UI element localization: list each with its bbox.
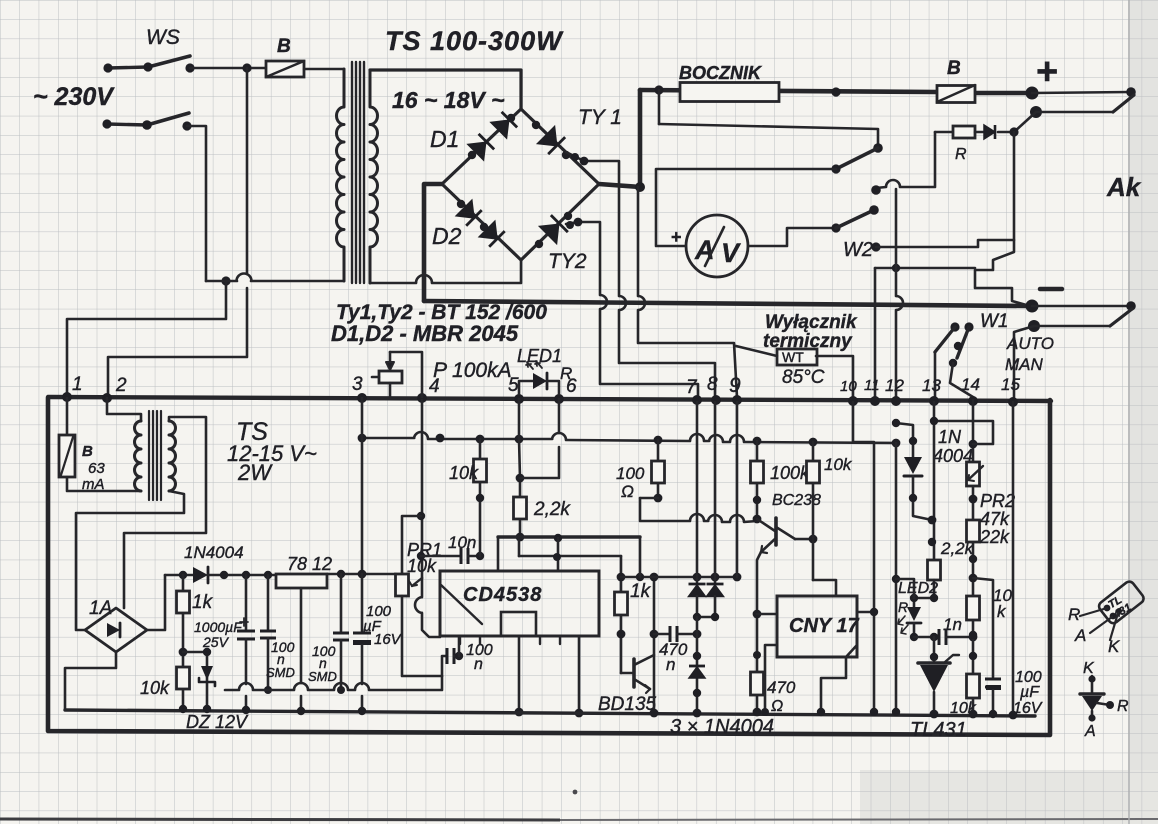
LED1 with R	[519, 381, 533, 394]
pin 15	[1008, 397, 1018, 407]
svg-text:2W: 2W	[237, 460, 273, 485]
transformer TS100 secondary winding	[370, 70, 378, 283]
wire N to transformer primary bottom (hop over L wire)	[206, 280, 237, 283]
pin 10	[848, 396, 858, 406]
shunt BOCZNIK	[680, 83, 779, 102]
svg-text:CD4538: CD4538	[463, 584, 542, 606]
svg-text:+: +	[1036, 51, 1058, 93]
potentiometer P 100kA	[379, 371, 402, 383]
transformer TS100 primary winding	[337, 69, 345, 281]
capacitor 100n SMD (2)	[340, 574, 343, 631]
TY1 gate wire to pin8 riser	[566, 152, 619, 296]
svg-text:1N: 1N	[938, 427, 962, 447]
transistor BD135	[621, 672, 632, 675]
7812 ground pin	[300, 588, 303, 683]
svg-text:R: R	[1068, 605, 1080, 624]
svg-text:15: 15	[1001, 375, 1020, 394]
svg-text:R: R	[1117, 698, 1129, 715]
pin12 column lower	[895, 443, 898, 712]
scan line bottom edge	[0, 819, 560, 820]
svg-text:BOCZNIK: BOCZNIK	[679, 63, 763, 83]
svg-text:16 ~ 18V ~: 16 ~ 18V ~	[392, 87, 505, 113]
svg-text:10k: 10k	[449, 463, 479, 483]
zener DZ 12V	[183, 652, 207, 709]
transformer TS100 core	[351, 62, 353, 283]
svg-text:CNY 17: CNY 17	[789, 615, 860, 637]
svg-text:B: B	[82, 443, 93, 460]
capacitor 1000uF 25V	[245, 575, 248, 629]
pot wiper link to pin13	[934, 421, 993, 444]
svg-text:DZ 12V: DZ 12V	[186, 712, 249, 732]
optocoupler CNY17	[777, 596, 857, 657]
svg-text:PR2: PR2	[980, 491, 1015, 511]
wire to CNY17 top pin	[813, 580, 836, 596]
svg-text:16V: 16V	[1013, 700, 1043, 717]
control board outline	[48, 398, 1050, 735]
svg-text:25V: 25V	[202, 634, 230, 650]
resistor 1k (timer)	[620, 556, 623, 673]
TO-92 package TL431	[1097, 580, 1147, 628]
svg-text:Ak: Ak	[1106, 172, 1142, 202]
pin5 column with 2,2k	[519, 399, 520, 537]
wire y556 to 1k	[519, 555, 621, 558]
svg-text:TY2: TY2	[548, 250, 587, 273]
plus terminal	[1026, 87, 1039, 100]
svg-text:B: B	[277, 36, 291, 57]
svg-text:BD135: BD135	[598, 694, 657, 715]
svg-text:V: V	[721, 238, 741, 268]
resistor 100k	[756, 441, 759, 519]
pin7 column + diode	[696, 402, 699, 582]
TL431	[933, 637, 936, 663]
fuse B (mains)	[266, 61, 304, 77]
pin12 riser (hops minus rail)	[895, 189, 898, 296]
svg-text:85°C: 85°C	[782, 367, 825, 388]
capacitor 470n	[654, 633, 670, 636]
pin 1	[62, 392, 72, 402]
wire W2 pole1 to meter plus	[656, 169, 836, 246]
resistor 10k (line A to 10n)	[479, 439, 482, 556]
svg-text:63: 63	[88, 460, 105, 477]
svg-text:10k: 10k	[824, 455, 853, 474]
svg-text:D1: D1	[430, 126, 459, 152]
resistor 1k	[182, 575, 185, 709]
ground rail	[65, 710, 1035, 716]
svg-text:1n: 1n	[943, 615, 962, 634]
svg-text:100: 100	[616, 464, 645, 483]
svg-text:3: 3	[352, 374, 363, 395]
svg-text:1k: 1k	[192, 592, 214, 613]
wire L down to pin2	[242, 63, 251, 72]
diode 1N4004	[165, 574, 193, 577]
wire N branch to pin1	[67, 281, 226, 396]
wire secondary top to bridge	[370, 70, 521, 109]
svg-text:16V: 16V	[374, 631, 403, 648]
svg-text:22k: 22k	[979, 527, 1010, 547]
svg-text:78 12: 78 12	[287, 554, 332, 574]
thyristor TY1	[538, 127, 566, 155]
pin 7	[692, 395, 702, 405]
bridge minus output to rail	[424, 184, 442, 301]
svg-text:A: A	[1084, 723, 1096, 740]
row 577	[621, 576, 737, 579]
trickle branch: R and diode	[1014, 112, 1036, 132]
LED2 top jog to pin12 column	[896, 579, 914, 598]
pin 6	[554, 394, 564, 404]
wire fuse to transformer	[304, 68, 344, 71]
transformer TS (board)	[107, 398, 141, 421]
resistor 100 ohm	[657, 440, 660, 498]
svg-text:11: 11	[864, 377, 880, 394]
pin7 column lower + third diode	[696, 617, 699, 713]
svg-text:W1: W1	[980, 311, 1009, 332]
plus rail top	[640, 90, 937, 92]
bridge diamond	[442, 109, 599, 260]
svg-text:P 100kA: P 100kA	[433, 359, 512, 382]
wire TS secondary bottom to 1A bridge	[76, 491, 184, 630]
diode 1N4004 (gate)	[896, 423, 913, 457]
svg-text:Wyłącznik: Wyłącznik	[765, 312, 858, 333]
paper fold line right	[1128, 0, 1130, 824]
minus distribution rail	[424, 301, 1030, 306]
svg-text:1000µF: 1000µF	[194, 619, 243, 635]
svg-text:AUTO: AUTO	[1006, 334, 1054, 353]
switch WS pole 2	[107, 124, 147, 125]
wire W2 common to R branch (hop)	[900, 132, 935, 187]
PR1 preset 10k	[402, 516, 421, 574]
svg-text:10: 10	[840, 378, 857, 395]
svg-text:14: 14	[961, 375, 980, 394]
wire switch2 down	[187, 126, 206, 281]
pin 8	[711, 395, 721, 405]
svg-text:SMD: SMD	[266, 665, 295, 680]
capacitor 100uF 16V	[361, 574, 364, 631]
svg-text:1N4004: 1N4004	[184, 543, 244, 562]
pin10 jog + pin11 column	[853, 402, 874, 712]
capacitor 1n	[914, 636, 939, 639]
CNY17 right pins	[857, 611, 874, 614]
switch W2 pole2	[831, 223, 840, 232]
diode D1 pair	[468, 134, 494, 160]
battery clamp minus blade	[1028, 320, 1040, 332]
resistor 10k pullup	[812, 442, 815, 580]
svg-text:Ω: Ω	[621, 482, 634, 501]
resistor 2,2k	[928, 560, 941, 580]
pin13 column	[933, 402, 936, 560]
line D (with hops)	[640, 498, 690, 521]
svg-text:D2: D2	[432, 223, 462, 249]
svg-text:9: 9	[729, 374, 741, 397]
capacitor 100n	[442, 656, 447, 676]
junction row to minus wiggle	[875, 267, 975, 270]
svg-text:+: +	[671, 227, 682, 247]
pin4 column	[421, 400, 424, 578]
BC238 collector to 10k	[795, 538, 813, 541]
pin 13	[929, 396, 939, 406]
svg-text:12: 12	[885, 376, 904, 395]
svg-text:Ω: Ω	[771, 698, 783, 715]
wire TS secondary top to 1A bridge	[124, 417, 206, 608]
svg-text:TL431: TL431	[910, 719, 967, 741]
wire fuse to TS primary	[67, 477, 141, 491]
svg-text:K: K	[1083, 660, 1095, 677]
switch W1	[950, 322, 959, 331]
pin6 column	[558, 399, 561, 433]
svg-text:WT: WT	[782, 349, 804, 365]
svg-text:n: n	[666, 655, 675, 674]
capacitor 10n	[421, 555, 461, 558]
PR1 bottom wire	[402, 596, 442, 676]
wire R-branch down to minus terminal	[975, 132, 1030, 306]
resistor 10k (bottom)	[967, 674, 980, 698]
wire pin11 riser up to junction row	[874, 268, 877, 397]
svg-text:TS 100-300W: TS 100-300W	[385, 26, 564, 56]
wire minus clamp to pin15	[1014, 326, 1034, 397]
TY2 gate wire to pin7 riser	[566, 222, 600, 295]
svg-text:13: 13	[922, 376, 941, 395]
fuse B (battery)	[937, 86, 975, 103]
svg-text:LED1: LED1	[517, 346, 562, 366]
wire rail to W2 top contact	[659, 124, 878, 148]
svg-text:n: n	[474, 656, 483, 673]
regulator 7812	[276, 574, 327, 588]
+12V line to PR1	[327, 573, 396, 576]
LED2	[914, 598, 934, 607]
BD135 collector column	[653, 577, 656, 713]
svg-text:~ 230V: ~ 230V	[33, 83, 115, 111]
svg-text:WS: WS	[146, 26, 180, 49]
resistor 47k/22k	[967, 520, 980, 542]
emitter column with 470 ohm	[757, 552, 761, 712]
wire WT left to pin9 riser	[736, 346, 777, 356]
svg-text:470: 470	[767, 678, 796, 697]
board bus line with pins	[48, 397, 1051, 401]
svg-text:47k: 47k	[980, 509, 1010, 529]
pin 3	[357, 393, 367, 403]
pin 11	[870, 396, 880, 406]
IC CD4538	[440, 571, 599, 636]
pin 2	[102, 393, 112, 403]
svg-text:SMD: SMD	[308, 669, 337, 684]
svg-text:W2: W2	[843, 239, 873, 261]
svg-text:D1,D2 - MBR 2045: D1,D2 - MBR 2045	[331, 321, 519, 346]
pin14 column	[972, 400, 975, 714]
pin 14	[968, 396, 978, 406]
pin15 column	[1012, 402, 1015, 715]
line B	[498, 535, 640, 538]
svg-text:10k: 10k	[407, 556, 437, 576]
svg-text:100k: 100k	[770, 463, 810, 483]
svg-text:R: R	[898, 599, 908, 615]
svg-text:1A: 1A	[89, 598, 112, 619]
wire plus-rail stub down	[658, 90, 661, 124]
switch W2 pole1	[873, 143, 883, 153]
diode D2 pair	[456, 200, 481, 225]
pin 5	[514, 394, 524, 404]
IC ground pins to rail	[518, 636, 521, 712]
svg-text:LED2: LED2	[898, 580, 938, 597]
svg-text:8: 8	[707, 374, 718, 395]
svg-text:R: R	[560, 364, 572, 383]
+12V distribution line A	[362, 437, 414, 440]
svg-text:2: 2	[115, 375, 127, 396]
svg-text:1: 1	[72, 374, 83, 395]
capacitor 100n SMD (1)	[267, 575, 270, 629]
pin8 column + diode	[714, 402, 717, 582]
svg-text:µF: µF	[1019, 684, 1040, 701]
battery clamp plus blade	[1030, 106, 1042, 118]
resistor 10k (divider)	[967, 596, 980, 620]
thyristor TY2	[540, 215, 568, 243]
wire switch1 to fuse	[190, 67, 266, 70]
pin9 column	[736, 402, 739, 577]
svg-text:1k: 1k	[630, 581, 652, 602]
svg-text:10n: 10n	[448, 533, 476, 552]
svg-text:A: A	[1074, 626, 1086, 645]
transistor BC238	[757, 519, 775, 531]
plus sense riser to pin9	[637, 187, 640, 296]
pin3 column to +12 line	[361, 398, 364, 574]
wire secondary bottom to bridge (hop)	[370, 282, 416, 285]
svg-text:10k: 10k	[950, 700, 977, 717]
meter A/V	[686, 215, 748, 277]
capacitor 100uF 16V (right)	[973, 578, 993, 677]
svg-text:MAN: MAN	[1005, 355, 1044, 374]
wire WT right to pin10	[816, 356, 853, 397]
svg-text:2,2k: 2,2k	[533, 499, 571, 520]
ground return wire with hops	[225, 689, 239, 692]
node: mains N junction	[221, 276, 230, 285]
bridge plus output riser	[599, 90, 640, 187]
pin4 column lower (hop)	[421, 578, 424, 597]
minus terminal	[1026, 300, 1039, 313]
preset pot (on pin14)	[967, 462, 980, 486]
rectifier 1A	[85, 608, 147, 652]
stray dot bottom	[573, 790, 578, 795]
wire 1A bottom to ground rail	[65, 652, 116, 710]
pin 9	[732, 395, 742, 405]
svg-text:7: 7	[686, 377, 698, 398]
pin 4	[417, 393, 427, 403]
switch WS pole 1	[108, 67, 148, 68]
svg-text:R: R	[955, 146, 967, 163]
svg-text:TY 1: TY 1	[578, 106, 622, 129]
svg-text:B: B	[947, 58, 961, 79]
wire 1A output to diode line	[147, 575, 165, 630]
svg-text:10k: 10k	[140, 678, 170, 698]
wire meter to W2 pole2	[748, 228, 836, 246]
svg-text:K: K	[1108, 637, 1120, 656]
fuse B 63mA	[66, 398, 69, 435]
svg-text:3 × 1N4004: 3 × 1N4004	[670, 716, 774, 738]
pin 12	[891, 396, 901, 406]
